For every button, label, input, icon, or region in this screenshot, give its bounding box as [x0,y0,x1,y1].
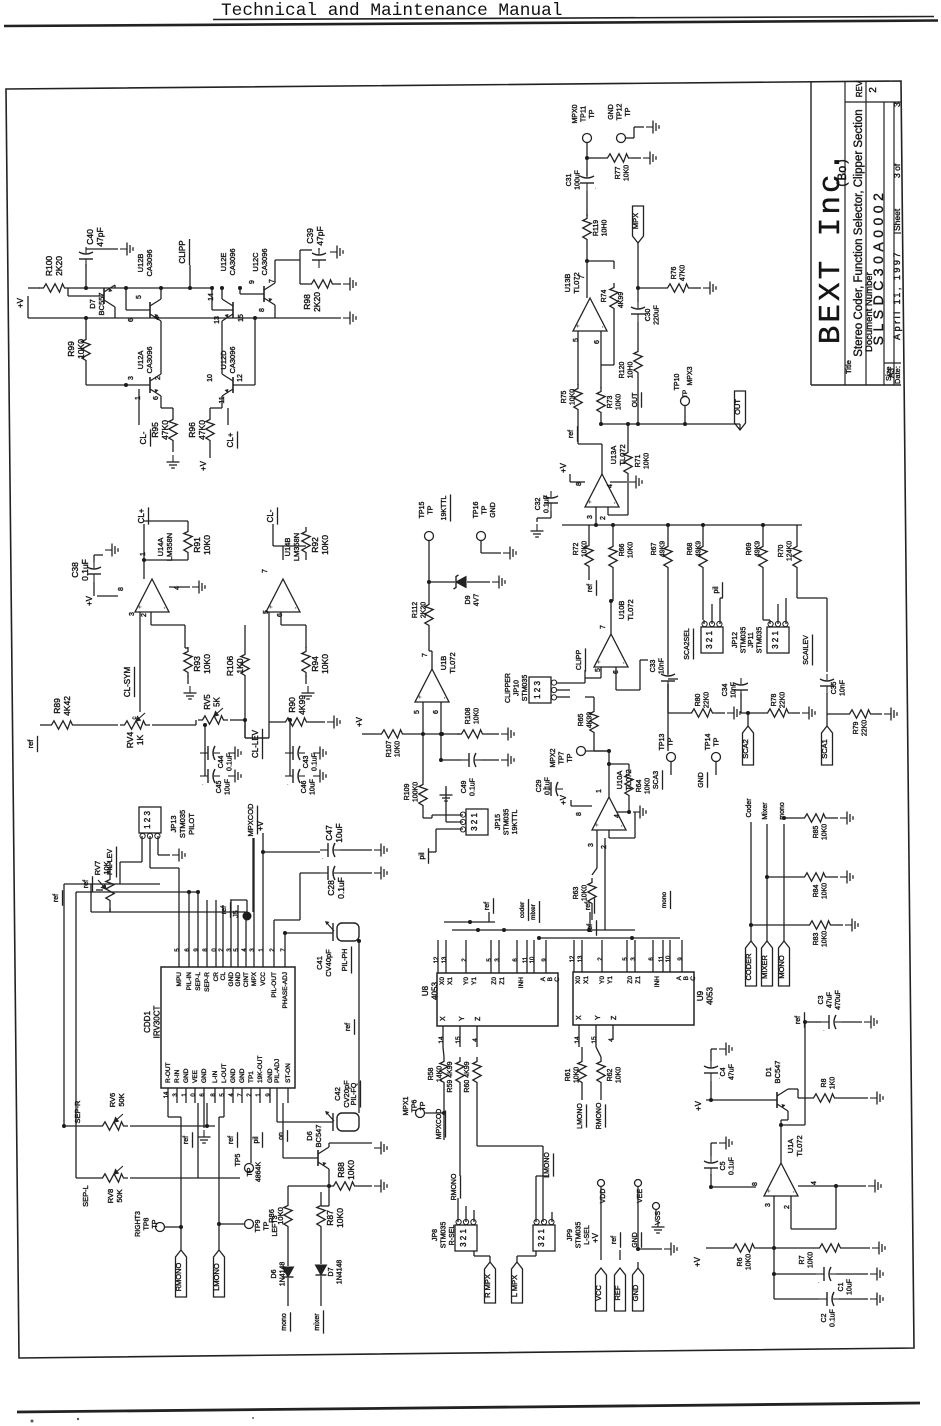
wire clipper top bus [69,287,212,289]
resistor R73 [597,387,605,417]
svg-text:5: 5 [414,710,421,714]
svg-text:C30: C30 [645,308,652,321]
svg-text:U13A: U13A [609,446,618,465]
net label coder small [519,901,526,918]
svg-text:X: X [440,1016,447,1021]
svg-text:Y: Y [595,1015,602,1020]
svg-text:49K9: 49K9 [660,541,667,557]
svg-text:11: 11 [659,955,665,962]
svg-text:100uF: 100uF [575,170,582,190]
svg-text:7: 7 [600,625,607,629]
ground at D9 [492,576,505,589]
net label MPXCOD (pilot) [246,803,255,837]
jumper JP11 [767,627,789,653]
wire U10B output up to R66/R72 bus [610,601,612,634]
svg-text:R66: R66 [619,543,626,556]
svg-text:C2: C2 [821,1313,828,1322]
svg-text:JP10: JP10 [514,680,521,696]
svg-text:U13B: U13B [563,274,572,293]
resistor R112 [425,600,433,630]
svg-text:5: 5 [487,958,493,962]
svg-text:MPX1: MPX1 [403,1096,410,1115]
net label ref below CDD1 [183,1136,190,1144]
capacitor C3 [821,1015,841,1033]
wire U1A output up [780,1120,782,1163]
svg-text:10K0: 10K0 [822,883,829,899]
potentiometer RV8 [98,1166,128,1182]
op-amp U10A TL072 [592,797,626,830]
resistor R75 [574,384,582,414]
svg-text:4K42: 4K42 [62,696,72,716]
svg-text:L-OUT: L-OUT [221,1063,228,1083]
wire U10A output up [608,764,610,797]
svg-text:TP: TP [625,107,632,116]
svg-text:+V: +V [355,716,364,727]
svg-text:Z: Z [611,1015,618,1020]
svg-text:C42: C42 [333,1087,342,1101]
resistor R87 [317,1201,325,1231]
svg-text:J5: J5 [233,910,240,918]
resistor R8 [809,1094,839,1102]
net label ref below R72 [587,584,594,592]
testpoint TP16 [477,532,486,541]
svg-text:R75: R75 [561,390,568,403]
flag MPX [633,206,644,243]
ground at U10A pin4 [633,806,646,819]
svg-text:C33: C33 [650,659,657,672]
wire [143,524,145,560]
svg-text:3: 3 [227,948,233,952]
resistor R90 [281,718,311,726]
svg-text:C41: C41 [315,956,324,970]
wire U14B minus to caps [289,720,291,752]
svg-text:R63: R63 [573,886,580,899]
net label RMONO below R62 [596,1102,603,1129]
resistor R106 [241,650,249,680]
svg-text:R67: R67 [651,542,658,555]
wire CL-LEV node [244,720,246,738]
svg-text:2: 2 [784,1205,791,1209]
net label LMONO below R61 [577,1103,584,1129]
net label CL-SYM [123,667,132,698]
resistor R72 [585,541,593,571]
svg-text:3: 3 [631,957,637,961]
svg-text:1N4148: 1N4148 [280,1262,287,1287]
resistor R92 [302,527,310,557]
+V at U13A [559,462,568,473]
svg-text:+: + [596,660,603,664]
svg-text:Mixer: Mixer [762,802,769,820]
svg-text:10K0: 10K0 [822,824,829,840]
svg-text:9: 9 [678,957,684,961]
svg-text:4: 4 [811,1181,818,1185]
svg-text:R80: R80 [695,693,702,706]
svg-text:PIL-OUT: PIL-OUT [271,972,278,998]
svg-text:220uF: 220uF [654,305,661,325]
svg-text:D7: D7 [328,1267,335,1276]
U8 bottom pin numbers [438,1036,445,1044]
ground at R79 [884,708,897,721]
svg-text:4: 4 [154,316,161,320]
svg-text:10K0: 10K0 [628,542,635,558]
svg-text:10K0: 10K0 [574,1067,581,1083]
ground at C45 [228,770,241,783]
svg-text:R85: R85 [813,825,820,838]
svg-text:4: 4 [472,1038,479,1042]
svg-text:0.1uF: 0.1uF [227,753,234,771]
svg-text:+V: +V [694,1100,703,1111]
svg-text:TP16: TP16 [473,502,480,519]
resistor R96 [206,415,214,445]
svg-text:10K0: 10K0 [320,654,330,674]
jumper JP15 [466,809,488,835]
net label ref power [611,1236,618,1244]
svg-text:C28: C28 [326,880,336,896]
U8 pin names [439,977,446,985]
svg-text:0.1uF: 0.1uF [336,877,346,899]
svg-text:3: 3 [129,612,136,616]
svg-text:R99: R99 [66,341,76,357]
svg-text:TL072: TL072 [626,599,635,620]
svg-text:9: 9 [542,958,548,962]
svg-text:8: 8 [211,1093,217,1097]
svg-text:ref: ref [568,430,575,438]
svg-text:1K: 1K [135,734,145,745]
vertical labels Coder Mixer mono [746,798,753,818]
svg-text:ref: ref [26,739,35,749]
resistor R109 [419,780,427,810]
transistor D6 BC547 [318,1147,329,1169]
svg-text:R106: R106 [225,656,235,677]
resistor R58 [440,1057,448,1087]
+V at R107 [355,716,364,727]
svg-text:R78: R78 [771,693,778,706]
U9 top pin numbers [570,955,576,962]
svg-text:+V: +V [591,1232,600,1243]
svg-text:CA3096: CA3096 [228,248,237,275]
ground at TP12 [646,121,659,134]
svg-text:TP11: TP11 [581,106,588,122]
bottom page rule [17,1403,920,1412]
svg-text:RMONO: RMONO [451,1173,458,1200]
svg-text:10K0: 10K0 [335,1208,345,1228]
svg-text:50K: 50K [117,1093,126,1106]
svg-text:PIL-ADJ: PIL-ADJ [274,1059,281,1083]
+V at U14A [85,595,94,606]
svg-text:6: 6 [594,340,601,344]
svg-text:SEP-R: SEP-R [204,972,211,992]
title block Document Number label [864,272,875,352]
CDD1 bottom pin stubs [167,1088,169,1103]
svg-text:REF: REF [613,1285,622,1300]
svg-text:TP: TP [589,109,596,118]
svg-text:JP15: JP15 [495,814,502,830]
svg-text:April 11, 1997: April 11, 1997 [892,250,902,340]
svg-text:PILOT: PILOT [187,813,196,835]
svg-text:A: A [540,976,547,981]
svg-text:4: 4 [229,1093,235,1097]
wires coder mixer mono down [750,822,752,941]
resistor R99 [82,335,90,365]
wire C1 C2 node [773,1248,775,1299]
title block document number value [870,189,886,346]
svg-text:6: 6 [153,396,160,400]
svg-text:CL: CL [220,972,227,981]
svg-text:10K0: 10K0 [582,541,589,557]
svg-text:ref: ref [795,1016,802,1024]
svg-text:10: 10 [666,955,672,962]
svg-text:1: 1 [596,789,603,793]
svg-text:R77: R77 [615,166,622,179]
net label ref near C41 [345,1023,352,1031]
svg-text:R79: R79 [853,721,860,734]
svg-text:1: 1 [259,948,265,952]
svg-text:GND: GND [235,972,242,987]
svg-text:C44: C44 [218,755,225,768]
svg-text:R72: R72 [573,542,580,555]
resistor R83 [805,921,835,929]
svg-text:0: 0 [191,1093,197,1097]
transistor U12B CA3096 [150,299,161,321]
svg-text:R94: R94 [310,656,320,672]
svg-text:6: 6 [128,318,135,322]
net label ref (mid-left) [53,894,60,902]
svg-text:TP: TP [714,737,721,746]
net label CL- (comparator) [266,509,275,522]
resistor R100 [39,284,69,292]
transistor U12A CA3096 [150,374,161,396]
jumper JP9 [533,1225,555,1251]
svg-text:.: . [322,855,324,861]
title block Size label [884,366,893,381]
svg-text:R112: R112 [412,602,419,618]
svg-text:0.1uF: 0.1uF [545,777,552,795]
wires JP13 pins down [141,836,143,862]
wire RV8 to CDD1 SEP-L [197,1103,199,1178]
net label SCAILEV [803,635,810,665]
resistor R107 [377,730,407,738]
net label ref above U9 [585,902,592,910]
svg-text:8: 8 [259,308,266,312]
svg-text:10uF: 10uF [310,779,317,795]
ground at C3 [864,1016,877,1029]
svg-text:GND: GND [631,1284,640,1301]
svg-text:B: B [683,976,690,980]
svg-text:1N4148: 1N4148 [337,1260,344,1285]
wire to CL- label [138,389,140,425]
svg-text:C46: C46 [301,780,308,793]
op-amp U13B TL072 [573,298,607,331]
svg-text:13: 13 [442,956,448,963]
potentiometer RV6 [98,1114,128,1130]
svg-text:MPU: MPU [176,972,183,987]
capacitor C38 [87,562,101,582]
svg-text:R91: R91 [192,537,202,553]
resistor R68 [699,542,707,572]
wire pin6 node [439,732,443,736]
svg-text:5K: 5K [213,696,222,706]
svg-text:4K99: 4K99 [297,695,307,715]
wire CL-LEV [268,640,270,738]
capacitor C35 [820,674,834,694]
wire CL-SYM [139,640,141,690]
svg-text:1K0: 1K0 [830,1077,837,1090]
ground above C38 [105,544,118,557]
svg-text:TP5: TP5 [235,1153,242,1166]
svg-text:C3: C3 [818,995,825,1004]
svg-text:U12D: U12D [219,350,228,370]
svg-text:on: on [278,1132,285,1140]
svg-text:10uF: 10uF [225,779,232,795]
ground at R88 [374,1180,387,1193]
title block (Bo) [836,158,850,188]
svg-text:U12A: U12A [136,351,145,370]
svg-text:LM358N: LM358N [292,533,301,561]
svg-text:C38: C38 [70,562,80,578]
resistor R93 [184,647,192,677]
svg-text:CL-: CL- [266,509,275,522]
resistor R69 [759,542,767,572]
wire TP15 down [428,541,430,600]
resistor R78 [763,709,793,717]
svg-text:47pF: 47pF [95,227,105,246]
resistor R60 [473,1057,481,1087]
svg-text:CA3096: CA3096 [260,248,269,275]
op-amp U14B LM358N [266,579,300,612]
svg-text:2: 2 [219,948,225,952]
svg-text:TP: TP [420,1101,427,1110]
jumper JP8 [455,1225,477,1251]
svg-text:R120: R120 [619,362,626,379]
net label SCA2SEL [684,628,691,660]
capacitor C2 [819,1292,839,1306]
wire R-OUT down [167,1103,169,1117]
svg-text:LMONO: LMONO [577,1103,584,1129]
svg-text:REV: REV [855,80,864,97]
svg-text:U12B: U12B [136,254,145,273]
svg-text:CINT: CINT [243,972,250,987]
resistor R63 [588,878,596,908]
svg-text:TP: TP [152,1219,159,1228]
svg-text:RV7: RV7 [93,861,102,875]
capacitor C45 [200,769,220,787]
wire mpxcod horizontal [91,911,247,913]
capacitor C44 [200,746,220,760]
transistor U12C CA3096 [264,283,275,305]
svg-text:JP13: JP13 [169,815,178,832]
resistor R85 [800,814,830,822]
svg-text:GND: GND [632,1232,639,1248]
resistor R67 [664,542,672,572]
svg-text:VCC: VCC [594,1285,603,1301]
svg-text:5: 5 [136,295,143,299]
svg-text:LMONO: LMONO [544,1152,551,1178]
U8/U9 bottom stubs [442,1026,444,1047]
ground at R78 [802,707,815,720]
svg-text:10K0: 10K0 [570,389,577,405]
svg-text:R7: R7 [799,1255,806,1264]
svg-text:1 2 3: 1 2 3 [143,811,152,829]
svg-text:2: 2 [462,958,468,962]
svg-text:INH: INH [654,976,661,988]
svg-text:GND: GND [490,502,497,518]
ground power row [664,1243,677,1256]
net label CL-LEV [251,729,260,758]
svg-text:CDD1: CDD1 [143,1011,152,1033]
svg-text:50K: 50K [115,1189,124,1202]
ground below R93 [184,686,197,699]
svg-text:RV4: RV4 [125,732,135,749]
wire MPX column [637,243,639,288]
resistor R94 [302,647,310,677]
flag MIXER [762,941,773,986]
svg-text:10K0: 10K0 [645,778,652,794]
svg-text:10K0: 10K0 [616,394,623,410]
svg-text:ref: ref [587,584,594,592]
svg-text:8: 8 [752,1182,759,1186]
svg-text:14K0: 14K0 [437,1066,444,1082]
svg-text:5: 5 [175,948,181,952]
svg-text:GND: GND [239,1068,246,1083]
svg-text:+V: +V [559,794,568,805]
svg-text:3: 3 [587,515,594,519]
svg-text:+: + [268,605,275,609]
flag REF [615,1268,626,1311]
svg-text:ref: ref [587,924,594,932]
svg-text:8: 8 [203,948,209,952]
svg-text:22K0: 22K0 [704,692,711,708]
svg-text:R109: R109 [404,784,411,801]
svg-text:U12C: U12C [251,252,260,272]
svg-text:CR: CR [213,972,220,982]
wire C33 SCA3 column [667,684,669,751]
svg-text:R8: R8 [821,1078,828,1087]
wire C31 to R119 [586,191,588,216]
svg-text:47K0: 47K0 [680,265,687,281]
svg-text:0: 0 [212,948,218,952]
svg-text:ref: ref [53,894,60,902]
svg-text:ref: ref [221,906,228,914]
svg-text:X: X [576,1015,583,1020]
svg-text:3 2 1: 3 2 1 [705,631,714,649]
svg-text:14: 14 [438,1036,445,1044]
capacitor C47 [320,843,340,861]
svg-text:12: 12 [237,374,244,382]
svg-text:10K0: 10K0 [616,1067,623,1083]
svg-text:3: 3 [588,843,595,847]
ground at C40 [120,243,133,256]
wire U1A inputs [773,1196,775,1248]
potentiometer RV5 [198,708,228,724]
svg-text:coder: coder [519,901,526,918]
wire to R98/C39 node [275,259,300,261]
trimmer C41 [325,921,359,941]
svg-text:CA3096: CA3096 [228,346,237,373]
svg-text:0.1uF: 0.1uF [544,495,551,513]
svg-text:R69: R69 [746,542,753,555]
svg-text:GND: GND [230,1068,237,1083]
resistor R62 [597,1057,605,1087]
svg-text:10K0: 10K0 [202,654,212,674]
svg-text:Sheet: Sheet [892,208,902,231]
svg-text:2K20: 2K20 [421,602,428,618]
svg-text:R-IN: R-IN [174,1069,181,1083]
net label CLIPP at JP10 [576,650,583,671]
connector J5 [243,912,252,921]
svg-text:0.1uF: 0.1uF [830,1309,837,1327]
svg-text:L-SEL: L-SEL [584,1225,591,1245]
wire L-OUT down [223,1103,225,1117]
